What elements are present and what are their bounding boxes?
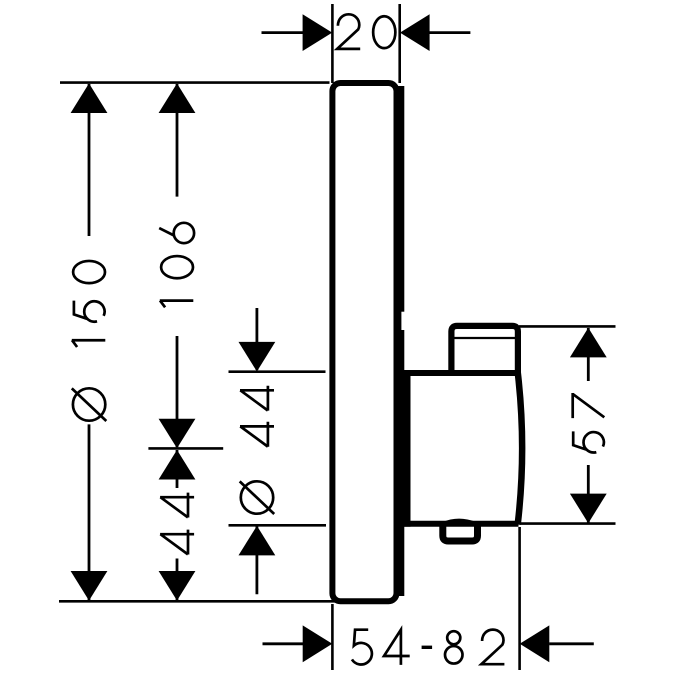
dim 44 arrow down bbox=[159, 571, 196, 601]
dim 57 line lower bbox=[587, 465, 590, 523]
extension line 20 right bbox=[398, 4, 401, 83]
dim 20 arrow right bbox=[303, 14, 333, 51]
dim 54-82 arrow right bbox=[303, 625, 333, 662]
dim 20 arrow left bbox=[400, 14, 430, 51]
label 106 char 0 bbox=[161, 256, 193, 278]
tick body bottom bbox=[229, 524, 327, 527]
dim Ø44 line upper bbox=[255, 308, 258, 370]
valve body left edge bbox=[404, 370, 411, 527]
dim 44 arrow up bbox=[159, 450, 196, 480]
label Ø150 char Ø bbox=[72, 388, 107, 421]
label 54-82 digit 2 bbox=[481, 630, 504, 665]
control knob outline bbox=[451, 326, 518, 373]
dim Ø44 arrow up bbox=[239, 526, 276, 556]
valve body top edge bbox=[404, 370, 519, 376]
label Ø150 char 0 bbox=[73, 261, 105, 283]
extension line 57 bottom bbox=[520, 522, 616, 525]
dim 106 line lower bbox=[176, 336, 179, 447]
label 20 digit 0 bbox=[373, 16, 395, 48]
wall plate outline bbox=[332, 83, 396, 601]
dim 57 arrow down bbox=[570, 494, 607, 524]
dim 57 arrow up bbox=[570, 328, 607, 358]
label Ø44 char 4 upper bbox=[240, 386, 274, 411]
dim 44 line lower bbox=[176, 559, 179, 601]
dim 44 line upper bbox=[176, 450, 179, 488]
label 106 char 1 bbox=[160, 301, 194, 308]
dim 20 right tail bbox=[430, 31, 471, 34]
dim Ø150 arrow down bbox=[71, 571, 108, 601]
extension line top (plate top) bbox=[60, 81, 330, 84]
extension line 57 top bbox=[519, 325, 616, 328]
label 44 char 4 upper bbox=[160, 493, 194, 518]
tab arch bbox=[443, 520, 476, 524]
dim Ø44 line lower bbox=[255, 526, 258, 594]
dim 106 arrow down bbox=[159, 419, 196, 449]
label Ø44 char Ø bbox=[240, 481, 274, 514]
valve body right edge (bulged) bbox=[518, 372, 522, 525]
label Ø150 char 5 bbox=[74, 301, 105, 322]
label 57 char 7 bbox=[573, 393, 605, 418]
dim 54-82 left tail bbox=[263, 642, 304, 645]
label 20 digit 2 bbox=[337, 14, 360, 49]
extension line bottom (plate bottom) bbox=[59, 600, 336, 603]
valve body bottom edge bbox=[404, 521, 519, 527]
label Ø44 char 4 lower bbox=[240, 422, 274, 447]
dim 54-82 right tail bbox=[549, 642, 594, 645]
label 54-82 dash bbox=[422, 646, 433, 649]
mounting tab bbox=[443, 524, 478, 541]
tick handle axis bbox=[148, 447, 223, 450]
label 106 char 6 bbox=[159, 223, 194, 243]
dim 20 left tail bbox=[262, 31, 304, 34]
dim 57 line upper bbox=[587, 328, 590, 381]
label 57 char 5 bbox=[573, 431, 604, 452]
wall-side double edge bar bbox=[398, 86, 405, 596]
dim Ø150 line upper bbox=[88, 84, 91, 236]
dim 106 line upper bbox=[176, 84, 179, 197]
dim 54-82 arrow left bbox=[520, 625, 550, 662]
knob cap line bbox=[454, 337, 515, 339]
dim 106 arrow up bbox=[159, 83, 196, 113]
label 44 char 4 lower bbox=[160, 530, 194, 555]
label 54-82 digit 5 bbox=[352, 630, 372, 665]
dim Ø150 line lower bbox=[88, 424, 91, 600]
extension line 54-82 right bbox=[518, 527, 521, 670]
extension line 54-82 left bbox=[331, 604, 334, 670]
dim Ø44 arrow down bbox=[239, 342, 276, 372]
label 54-82 digit 4 bbox=[384, 630, 410, 665]
tick body top bbox=[229, 370, 326, 373]
extension line 20 left bbox=[331, 4, 334, 83]
dim Ø150 arrow up bbox=[71, 83, 108, 113]
notch in wall-side bar bbox=[401, 312, 405, 330]
label 54-82 digit 8 bbox=[445, 631, 463, 663]
label Ø150 char 1 bbox=[72, 340, 106, 347]
